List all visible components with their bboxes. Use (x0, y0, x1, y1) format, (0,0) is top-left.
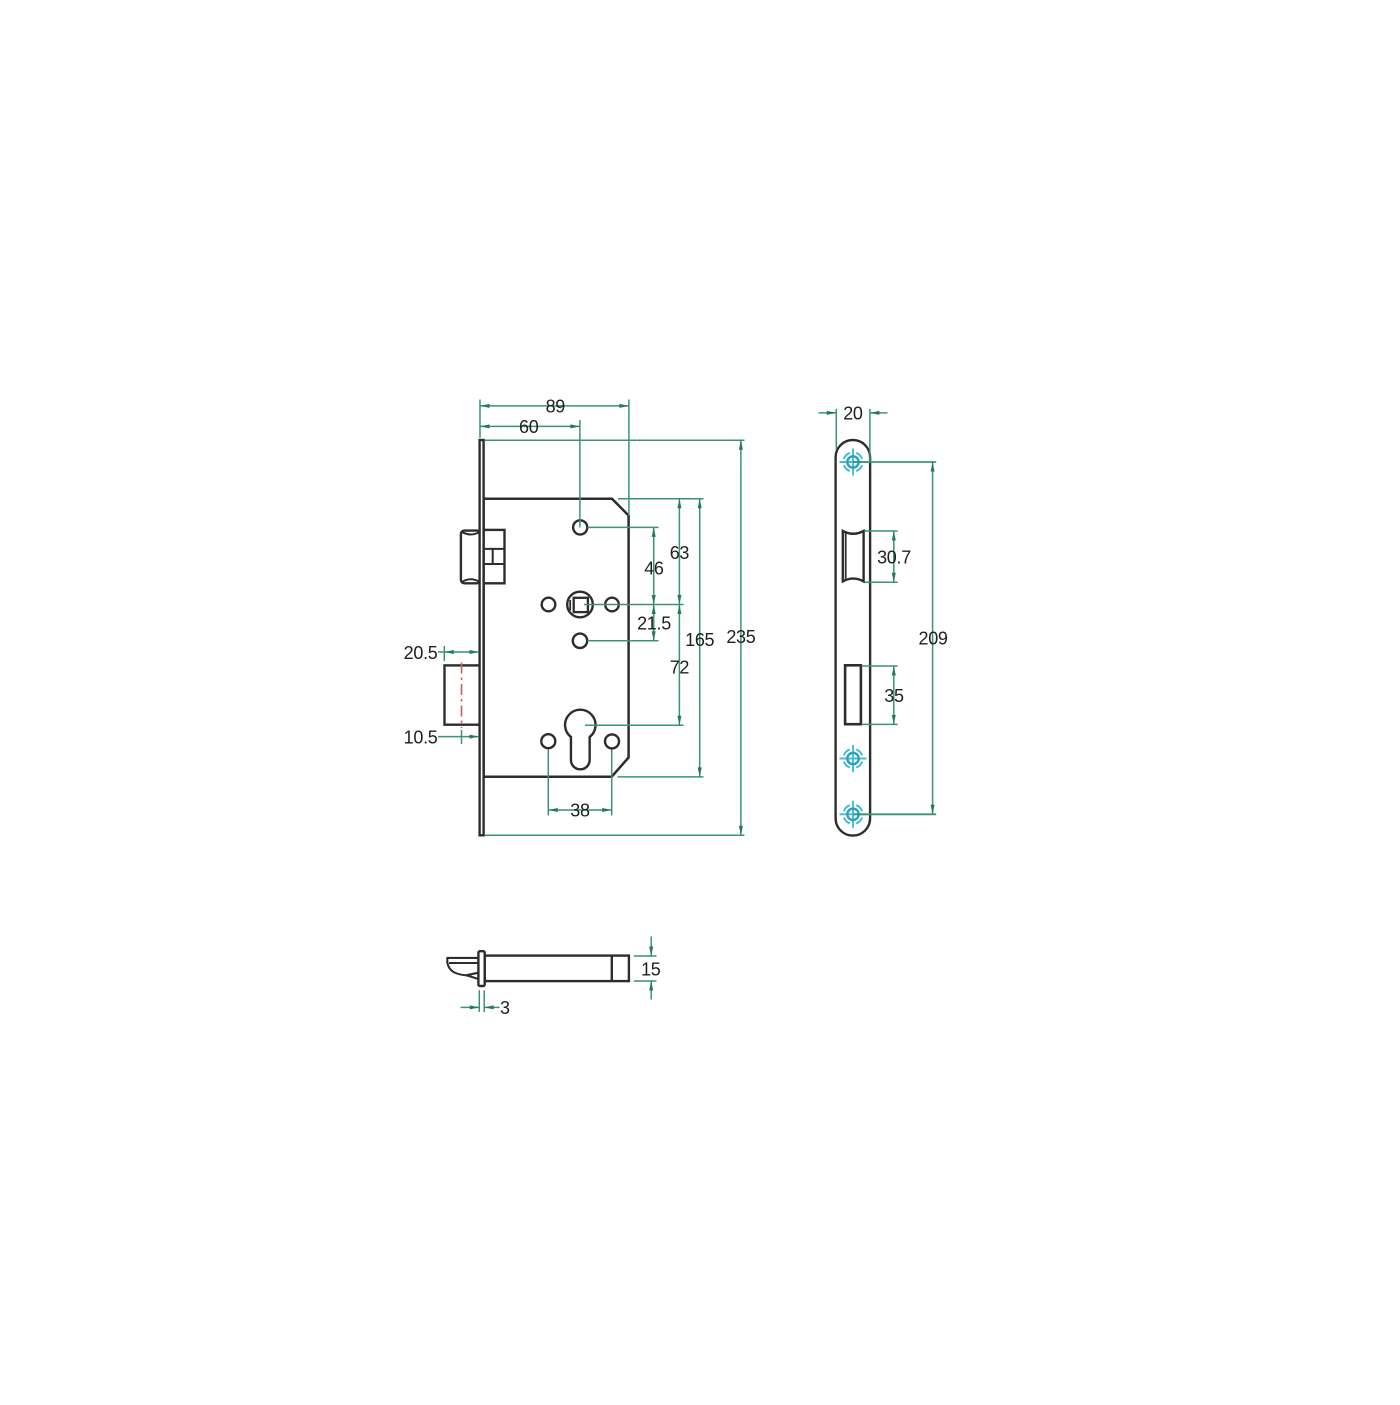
faceplate deadbolt cutout (845, 665, 861, 724)
latch bolt body front view (484, 530, 505, 583)
follower square hole (574, 598, 588, 612)
dimension 63 (678, 499, 680, 605)
extension body bottom corner (618, 776, 704, 778)
svg-text:63: 63 (670, 543, 690, 563)
faceplate latch cutout (843, 531, 864, 582)
svg-text:35: 35 (884, 686, 904, 706)
svg-text:89: 89 (546, 396, 566, 416)
dimension 235 (740, 440, 742, 835)
left handle hole (542, 598, 556, 612)
screw target top (840, 449, 867, 476)
top screw hole (573, 520, 587, 534)
lower small hole (573, 634, 587, 648)
deadbolt centerline (461, 663, 463, 729)
screw target bottom (840, 801, 867, 828)
dimension 15 (634, 955, 657, 957)
extension cylinder center (585, 724, 684, 726)
svg-text:15: 15 (641, 959, 661, 979)
svg-text:72: 72 (670, 658, 690, 678)
dimension 10.5 (461, 730, 463, 744)
svg-text:30.7: 30.7 (877, 547, 911, 567)
svg-text:60: 60 (519, 417, 539, 437)
euro cylinder hole (565, 710, 596, 770)
dimension 60 (579, 420, 581, 528)
dimension 35 (862, 665, 898, 667)
extension follower center (584, 604, 684, 606)
faceplate plan view (836, 440, 871, 836)
lock body outline (484, 499, 629, 777)
extension body top corner (618, 498, 704, 500)
dimension 46 (653, 527, 655, 604)
cylinder left fixing hole (541, 734, 555, 748)
svg-text:165: 165 (685, 630, 714, 650)
svg-text:10.5: 10.5 (404, 727, 438, 747)
svg-text:235: 235 (726, 627, 755, 647)
cylinder right fixing hole (605, 734, 619, 748)
deadbolt front view (445, 665, 481, 724)
dimension 20 (plate width) (835, 409, 837, 450)
dimension 3 (478, 990, 480, 1012)
svg-text:38: 38 (570, 801, 590, 821)
dimension 30.7 (865, 530, 898, 532)
dimension 20.5 (443, 646, 445, 661)
dimension 165 (699, 499, 701, 777)
extension faceplate bottom (485, 834, 745, 836)
svg-text:20.5: 20.5 (404, 643, 438, 663)
extension top hole (588, 526, 659, 528)
screw target middle (840, 745, 867, 772)
extension lower hole (588, 640, 659, 642)
svg-text:209: 209 (919, 629, 948, 649)
right handle hole (605, 598, 619, 612)
latch bolt head front view (461, 531, 481, 584)
extension faceplate top (485, 439, 745, 441)
dimension 21.5 (653, 605, 655, 641)
dimension 209 (853, 461, 936, 463)
svg-text:3: 3 (500, 998, 510, 1018)
latch side view bevel tip (447, 958, 478, 979)
dimension 38 (547, 750, 549, 816)
follower hub circle (567, 592, 593, 618)
dimension 72 (678, 605, 680, 726)
latch side view body (485, 956, 629, 982)
svg-text:20: 20 (843, 403, 863, 423)
faceplate front view (480, 440, 484, 835)
svg-text:21.5: 21.5 (637, 614, 671, 634)
faceplate cross-section bar (478, 951, 484, 986)
dimension 89 (479, 400, 481, 439)
svg-text:46: 46 (644, 558, 664, 578)
